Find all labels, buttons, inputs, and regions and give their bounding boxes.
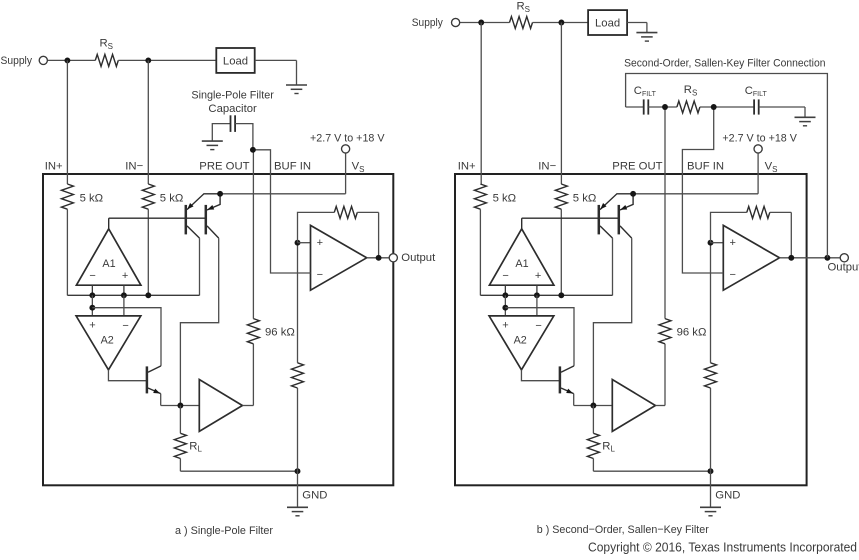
svg-text:5 kΩ: 5 kΩ bbox=[493, 192, 517, 204]
svg-text:+: + bbox=[535, 270, 541, 282]
svg-text:GND: GND bbox=[715, 490, 740, 502]
svg-text:−: − bbox=[317, 269, 323, 281]
svg-text:Load: Load bbox=[595, 18, 620, 30]
svg-text:+: + bbox=[317, 237, 323, 249]
svg-text:b ) Second−Order, Sallen−Key F: b ) Second−Order, Sallen−Key Filter bbox=[537, 524, 709, 536]
svg-text:Load: Load bbox=[223, 55, 248, 67]
svg-text:IN−: IN− bbox=[125, 161, 143, 173]
svg-text:Output: Output bbox=[828, 262, 859, 274]
svg-text:Single-Pole Filter: Single-Pole Filter bbox=[191, 89, 274, 101]
svg-text:PRE OUT: PRE OUT bbox=[199, 161, 249, 173]
svg-text:Capacitor: Capacitor bbox=[208, 103, 257, 115]
svg-text:+: + bbox=[122, 270, 128, 282]
svg-text:A2: A2 bbox=[514, 335, 527, 347]
svg-text:−: − bbox=[729, 269, 735, 281]
svg-text:BUF IN: BUF IN bbox=[687, 161, 724, 173]
svg-text:96 kΩ: 96 kΩ bbox=[265, 327, 295, 339]
svg-text:+: + bbox=[502, 320, 508, 332]
svg-text:Supply: Supply bbox=[412, 17, 443, 29]
svg-text:+2.7 V to +18 V: +2.7 V to +18 V bbox=[722, 133, 797, 145]
svg-text:BUF IN: BUF IN bbox=[274, 161, 311, 173]
svg-text:5 kΩ: 5 kΩ bbox=[573, 192, 597, 204]
svg-text:GND: GND bbox=[302, 490, 327, 502]
svg-text:+: + bbox=[729, 237, 735, 249]
svg-text:IN+: IN+ bbox=[45, 161, 63, 173]
svg-text:+: + bbox=[89, 320, 95, 332]
svg-text:−: − bbox=[535, 320, 541, 332]
svg-text:A1: A1 bbox=[102, 258, 115, 270]
svg-text:Output: Output bbox=[401, 252, 436, 264]
svg-text:IN−: IN− bbox=[538, 161, 556, 173]
svg-text:−: − bbox=[122, 320, 128, 332]
svg-text:5 kΩ: 5 kΩ bbox=[160, 192, 184, 204]
svg-text:A1: A1 bbox=[515, 258, 528, 270]
svg-text:Copyright © 2016, Texas Instru: Copyright © 2016, Texas Instruments Inco… bbox=[588, 539, 857, 554]
svg-text:Second-Order, Sallen-Key Filte: Second-Order, Sallen-Key Filter Connecti… bbox=[624, 57, 825, 69]
svg-text:−: − bbox=[89, 270, 95, 282]
svg-text:−: − bbox=[502, 270, 508, 282]
svg-text:a ) Single-Pole Filter: a ) Single-Pole Filter bbox=[175, 525, 273, 537]
svg-text:96 kΩ: 96 kΩ bbox=[677, 327, 707, 339]
svg-text:Supply: Supply bbox=[1, 55, 33, 67]
svg-text:A2: A2 bbox=[101, 335, 114, 347]
svg-text:5 kΩ: 5 kΩ bbox=[80, 192, 104, 204]
svg-text:+2.7 V to +18 V: +2.7 V to +18 V bbox=[310, 133, 385, 145]
svg-text:PRE OUT: PRE OUT bbox=[612, 161, 662, 173]
svg-text:IN+: IN+ bbox=[458, 161, 476, 173]
